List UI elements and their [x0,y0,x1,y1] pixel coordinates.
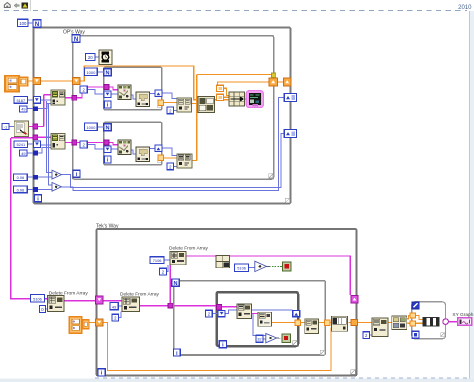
wire 49c to Delete1b [118,305,122,307]
loop B right orange SR [269,78,277,86]
node Delete1b (inside loop E) [122,297,140,311]
node BB build array [216,255,230,267]
toolbar back arrow icon [14,3,19,7]
wire branch up from junction to Delete1 [169,265,171,304]
node E2 [177,154,192,168]
loop A right blue tunnel 2 [284,130,296,138]
loop B count terminal N [72,35,80,43]
bottom page margin band [0,378,474,382]
wire into node C1 [109,87,118,90]
constant 2e [112,314,119,321]
wire 0.06b to tunnel to comparator2 [27,189,52,191]
constant 2d [167,163,174,170]
constant 32 [256,335,263,342]
wire between loop B and loop A right SRs [277,81,283,83]
wire pink tunnel2 to icon A2 input [38,136,51,138]
wire Delete1b out to loop F junction [140,305,170,307]
loop A blue down tunnel 2 [34,141,41,148]
pink junction square before loop F [168,303,173,308]
node bundle (build xy pairs) [229,92,245,106]
stop icon G [282,334,290,342]
for-loop A (OP's Way outer) [34,28,291,204]
wire const 2c to node E1 [174,109,177,111]
svg-text:5106: 5106 [33,296,42,301]
comparator triangle G [266,333,279,342]
loop A right blue tunnel 1 [284,94,296,102]
wire loop D up tunnel out to node E2 [162,148,177,155]
wire const2b jog into loop D down tunnel [87,144,104,149]
wire loop G tunnel into node G1 [222,306,237,308]
wire Delete0 out to loop E left shift register [64,300,96,302]
boolean dashed wire comparator G to stop icon [279,337,282,339]
wire riser to comparator2 top [48,103,52,185]
svg-text:N: N [105,126,109,132]
wire loop F tunnel to node S [330,321,332,323]
wire loop D down tunnel to node D1 [111,148,118,150]
loop F orange tunnel [324,320,330,325]
wire 1000 to loop C N [97,71,104,73]
svg-text:5106: 5106 [237,266,246,271]
loop A pink tunnel 1 [33,124,38,129]
loop D pink tunnel [104,140,109,145]
wire Delete1 out to build-array BB [186,255,216,257]
loop D iteration terminal i [104,156,111,164]
constant 49c [110,303,118,310]
wire 100 to loop A N [28,22,33,24]
wire 2e to Delete1b [119,311,121,317]
loop B pink tunnel 2 [72,140,77,145]
loop B pink tunnel 1 [72,95,77,100]
wire const 2g to loop G down tunnel [212,313,218,315]
svg-text:N: N [35,22,39,28]
wire node A2 to loop F tunnel [318,321,324,323]
structure H pink circle tunnel [443,319,449,325]
loop B iteration terminal i [73,170,80,178]
loop E right orange tunnel [351,319,357,325]
loop A left orange SR [33,77,40,84]
wire loop E right tunnel to node B2 [358,321,372,323]
orange mini constant 2 [217,94,224,100]
constant 2c [167,107,174,114]
wire loop E tunnel around bottom into node S second input [103,322,331,370]
wire node C2 to loop C up tunnel [150,93,155,95]
wire G2 out to loop G orange tunnel [272,321,295,323]
loop B small orange dot tunnel [271,73,275,77]
constant 5187 [14,97,28,104]
loop A pink tunnel 2 [33,135,38,140]
loop G orange tunnel [295,320,300,325]
structure H orange tunnel 2 [410,321,415,326]
constant 1000 (loop C) [85,68,98,75]
svg-text:49: 49 [21,107,25,112]
wire icon A2 out to loop B pink tunnel 2 [65,141,72,143]
svg-text:Delete From Array: Delete From Array [120,292,160,298]
wire loop B tunnel2 to loop D pink tunnel [77,141,104,143]
wire const 2d to node E2 [174,165,177,167]
wire 0.06a to tunnel to comparator1 [27,176,52,178]
wire const 32 to comparator G [263,338,266,340]
wire node C1 to node C2 [131,95,137,99]
constant 5106 mid [235,264,249,271]
loop C iteration terminal i [104,101,111,109]
node D1 [118,140,131,154]
wire loop G tunnel to node A2 [300,321,304,323]
wire long pink descender to Delete0 [11,138,48,299]
wire loop E SR to Delete1b [103,300,122,302]
svg-text:5187: 5187 [16,98,25,103]
wire icon A1 out to loop B pink tunnel [65,97,72,99]
constant 49b [20,150,28,156]
loop C orange corner tunnel [158,100,163,105]
wire node D2 to loop D up tunnel [150,148,155,150]
wire loop C exit to node E1 [162,102,177,104]
loop G blue up tunnel [293,310,300,316]
loop C blue down tunnel [104,91,111,97]
wire vertical feed to node F1 / from E2 [192,75,197,161]
node C2 [136,92,149,106]
node A2 (between G and F) [305,319,319,334]
svg-text:N: N [105,71,109,77]
loop B left orange SR [73,77,80,84]
wire 5106m to comparator M [249,267,255,269]
svg-text:20: 20 [88,55,93,60]
for-loop F (inner of Tek's Way) [174,281,326,355]
constant 2h [363,332,370,339]
loop C blue up tunnel [155,90,162,96]
structure H orange tunnel 1 [410,313,415,318]
wire loop A SR to loop B SR [41,80,73,82]
wire node B2 to node C2 [388,321,391,323]
right page margin band [470,11,474,382]
wire node C2 two outputs into structure H tunnels [407,315,410,323]
node: icon pair A2 [51,134,65,149]
constant 2g [206,310,213,317]
node E1 (delete-from-array style pair) [177,98,192,112]
node: icon pair A1 (index/convert) [51,90,65,105]
for-loop B (inner) [73,36,274,180]
node D2 [136,147,149,161]
svg-text:Delete From Array: Delete From Array [49,290,89,296]
constant 5241 [14,141,28,148]
constant 7106 [150,257,164,264]
svg-text:Tek's Way: Tek's Way [96,224,119,230]
wire loop G tunnel to node G1 [225,310,237,314]
wire loop B SR up-over to x194 [80,66,198,100]
wire orange mini consts into bundle [224,88,229,97]
wire pink tunnel1 right to riser [38,125,44,127]
while-loop E (Tek's Way) [97,229,357,376]
node G2 [258,312,271,326]
constant 49a [20,106,28,112]
loop A solid blue tunnel 0.06a [33,175,38,180]
comparator triangle M [255,261,269,271]
loop D blue up tunnel [155,145,162,151]
wire 2h to node B2 [369,334,372,336]
svg-text:0.06: 0.06 [17,187,25,192]
wire mini const riser across to right shift registers [217,82,269,85]
wire const2a jog into loop C down tunnel [87,89,104,94]
svg-text:100: 100 [19,21,27,26]
loop C count terminal N [104,69,111,77]
node Delete0 (Delete From Array, outside loop E) [48,296,64,312]
constant 5106 left [31,295,45,302]
comparator triangle 2 [52,182,61,191]
wire riser to comparator1 top [47,101,52,173]
wire loop D exit to node E2 [162,157,177,159]
constant 0 [39,305,45,312]
wire 49b to solid tunnel and jog to icon A2 [27,147,51,153]
express VI (selected, pink frame) [246,91,263,108]
wire comparator1 out long run to loop A right tunnel2 [62,134,284,188]
wire 7106 to Delete1 [164,259,170,261]
svg-text:XY Graph: XY Graph [452,312,473,318]
wire -1 to file icon [9,125,14,127]
stop icon M [282,262,291,271]
constant 0.06a [14,174,28,181]
wire pink riser x=43.8 [43,95,45,127]
loop A solid blue tunnel 49b [33,151,38,156]
node Delete1 (top of loop E) [170,251,186,264]
orange mini constant 1 [217,85,224,91]
svg-text:49: 49 [21,151,25,156]
constant 0.06b [14,186,28,193]
toolbar box [0,0,31,12]
wire 5187 to tunnel [28,99,34,101]
node F1 (checker grid) [198,96,215,112]
cluster constant 1 (top left) [5,76,28,92]
wire file-icon out2 to loop A pink tunnel2, teed left around icon [11,137,33,139]
wire cluster1 to loop A shift reg [28,80,34,82]
svg-text:Delete From Array: Delete From Array [169,246,209,252]
node C2b (bundle with colored fields) [392,316,407,330]
loop F count terminal N [172,279,179,287]
loop D count terminal N [104,124,111,132]
wire riser top into icon A1 [44,94,51,96]
constant 2a [80,86,87,93]
wire node F1 to bundle [215,99,229,101]
loop F iteration terminal i [173,349,180,357]
wire 5241 to tunnel [28,143,34,145]
for-loop D (lower small) [104,122,162,165]
loop G blue down tunnel [218,310,225,316]
constant -1 [2,124,9,130]
node G1 [237,304,252,319]
loop E iteration terminal i [98,369,105,377]
svg-text:32: 32 [257,337,261,342]
wire into node D1 [109,142,118,144]
loop E left pink SR [96,296,104,304]
wire 2f to Delete1 [167,265,168,272]
loop A iteration terminal i [35,195,42,203]
loop A solid blue tunnel 49a [33,106,38,111]
wire 0 to Delete0 [46,308,48,310]
wire file-icon out1 to loop A pink tunnel1 [29,125,33,127]
svg-text:N: N [173,281,177,287]
wire loop C up tunnel out to node E1 [162,93,177,98]
wire tunnel to icon A1 [40,99,51,101]
wire top horizontal to loop B right [197,74,273,76]
small structure H (right) [412,302,446,339]
wire BB out right and down to loop E right SR [230,256,351,295]
boolean dashed wire comparator M to stop icon [269,265,282,267]
svg-text:N: N [74,37,78,43]
structure H bottom terminal i [412,331,419,338]
svg-text:5241: 5241 [16,142,25,147]
node S (segmented bar, between F and E) [332,316,348,331]
wire bundle out to express VI [245,98,247,100]
node C1 [118,85,131,99]
constant 1000 (loop D) [85,123,98,130]
loop E right pink SR [351,295,358,303]
loop D orange corner tunnel [158,155,163,160]
wire comparator2 out long run to loop A right tunnel1 [62,97,284,190]
constant 2f [159,268,166,275]
wire node E1 to node F1 [192,103,198,105]
constant 20 [86,53,95,60]
wire junction through loop F edge to loop G pink tunnel [175,305,217,307]
toolbar diagram icon [22,3,29,9]
while-loop G (innermost dark) [217,292,299,346]
for-loop C (upper small) [104,67,162,110]
loop E left orange tunnel [96,319,104,326]
loop A solid blue tunnel 0.06b [33,187,38,192]
svg-text:49: 49 [112,304,116,309]
wire structure H out to XY Graph [448,321,457,323]
node: wait ms metronome [99,50,112,65]
svg-text:-1: -1 [4,125,7,130]
wire 20 to wait-ms [95,56,99,58]
svg-text:1000: 1000 [86,125,96,130]
cluster constant 2 (bottom) [69,317,89,333]
svg-text:1000: 1000 [86,70,96,75]
wire loop C down tunnel to node C1 [111,93,118,95]
loop A blue down tunnel 1 [33,97,40,104]
wire loop B tunnel jog up to loop C pink tunnel [77,87,104,98]
node: read file icon (left) [14,121,28,137]
loop C pink tunnel [104,85,109,90]
structure H top terminal [412,302,419,309]
wire 1000b to loop D N [97,126,104,128]
svg-text:2010: 2010 [458,5,472,11]
loop G iteration terminal i [219,341,226,349]
toolbar home icon [4,3,10,8]
loop A count terminal N [33,20,41,28]
constant 2b [80,141,87,148]
node S2 (striped bar inside H) [423,317,439,326]
loop D blue down tunnel [104,146,111,152]
comparator triangle 1 [52,170,61,179]
wire cluster2 to loop E tunnel [89,321,96,323]
wire node S to loop E right tunnel [349,321,351,323]
loop G pink tunnel [216,305,221,310]
svg-text:7106: 7106 [153,258,162,263]
wire node G1 pink out to node G2 [252,312,258,314]
wire node D1 to node D2 [131,150,137,154]
loop A right orange SR [284,78,291,86]
wire node G1 top output to loop G up tunnel [252,309,293,311]
svg-text:0.06: 0.06 [17,175,25,180]
wire 49a to solid tunnel and jog to icon A1 [27,104,51,109]
wires structure H tunnels to node S2 [416,315,423,323]
wire branch down to comparator G [253,313,266,335]
wire tunnel to icon A2 [41,144,51,146]
page-boundary dashed line horizontal top [4,9,467,11]
constant 100 [18,19,28,26]
node B2 (right of loop E) [372,318,388,337]
XY Graph indicator [458,318,472,326]
